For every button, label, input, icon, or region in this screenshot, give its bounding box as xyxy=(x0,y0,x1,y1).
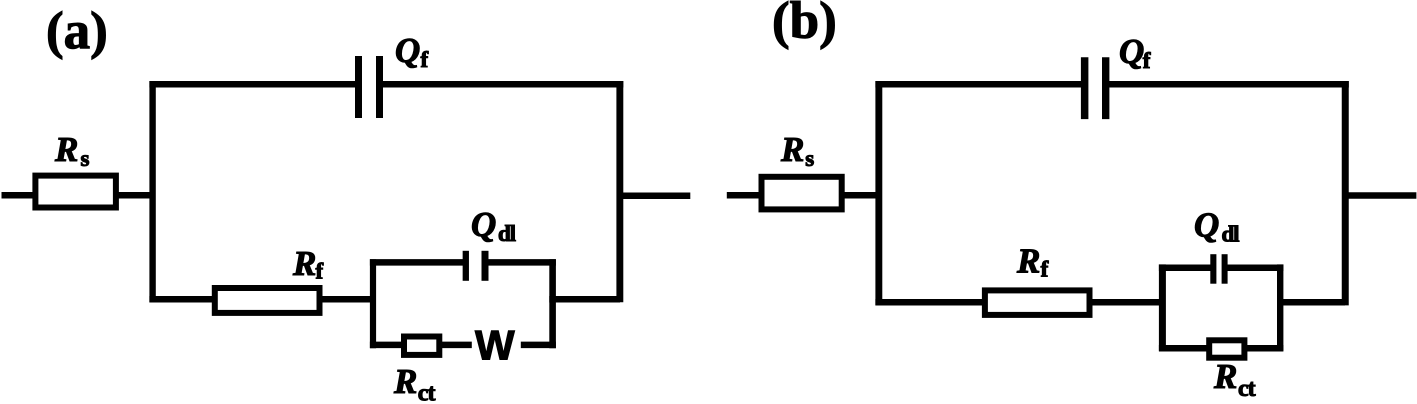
label Qf (a) xyxy=(395,31,429,72)
capacitor Qdl (b) left plate xyxy=(1210,254,1216,284)
label Rs (b) xyxy=(780,130,814,171)
wire Rct to parallel box right rail (b) xyxy=(1246,345,1283,352)
wire input lead (b) xyxy=(727,192,762,199)
label Qdl (b) xyxy=(1194,206,1239,247)
Warburg element W (a) xyxy=(475,322,515,369)
svg-text:ct: ct xyxy=(418,381,436,404)
wire output lead (a) xyxy=(623,192,690,199)
resistor Rct (b) xyxy=(1209,340,1244,357)
panel label (a) xyxy=(46,2,108,60)
label Qdl (a) xyxy=(471,205,516,246)
wire W to parallel box right rail (a) xyxy=(521,342,556,349)
wire top left segment (b) xyxy=(875,81,1082,88)
wire parallel box top right segment (b) xyxy=(1226,265,1283,272)
svg-text:s: s xyxy=(81,146,90,171)
svg-text:R: R xyxy=(780,130,804,169)
wire right rail (b) xyxy=(1342,81,1349,305)
svg-text:ct: ct xyxy=(1238,376,1256,402)
svg-text:R: R xyxy=(1016,242,1040,281)
svg-text:(b): (b) xyxy=(772,0,837,50)
wire Rs to left rail (a) xyxy=(116,192,153,199)
svg-text:dl: dl xyxy=(498,221,516,246)
label Rf (b) xyxy=(1016,242,1049,282)
wire left rail (a) xyxy=(149,81,155,302)
capacitor Qf (b) right plate xyxy=(1102,57,1109,119)
svg-text:W: W xyxy=(475,322,515,369)
label Rct (a) xyxy=(393,362,435,404)
resistor Rs (b) xyxy=(762,177,842,210)
capacitor Qdl (a) right plate xyxy=(482,251,489,281)
svg-text:Q: Q xyxy=(395,31,420,70)
label Qf (b) xyxy=(1119,32,1151,73)
label Rf (a) xyxy=(292,244,324,283)
wire parallel box top left segment (b) xyxy=(1159,265,1212,272)
capacitor Qdl (b) right plate xyxy=(1222,254,1228,284)
resistor Rf (a) xyxy=(215,288,320,313)
wire Rct to Warburg W (a) xyxy=(441,342,472,349)
wire Rs to left rail (b) xyxy=(842,192,879,199)
svg-text:Q: Q xyxy=(1194,206,1219,245)
capacitor Qdl (a) left plate xyxy=(463,251,469,281)
label Rct (b) xyxy=(1213,357,1256,402)
wire parallel box to right rail (a) xyxy=(549,296,620,303)
panel label (b) xyxy=(772,0,837,50)
wire top right segment (a) xyxy=(382,81,623,88)
wire parallel box right rail (a) xyxy=(549,259,556,348)
svg-text:f: f xyxy=(421,47,429,72)
wire parallel box right rail (b) xyxy=(1277,264,1283,350)
wire bottom branch left (a) xyxy=(149,296,213,303)
wire bottom branch left (b) xyxy=(875,299,985,306)
wire parallel box top left segment (a) xyxy=(370,259,464,266)
wire parallel box top right segment (a) xyxy=(487,259,556,266)
wire left rail (b) xyxy=(875,81,882,305)
wire output lead (b) xyxy=(1345,192,1416,199)
resistor Rf (b) xyxy=(985,290,1090,315)
wire parallel box to right rail (b) xyxy=(1277,299,1345,306)
svg-text:R: R xyxy=(292,244,316,283)
wire parallel box bottom left segment (a) xyxy=(370,342,404,349)
svg-text:dl: dl xyxy=(1222,222,1240,247)
svg-text:R: R xyxy=(54,130,78,169)
svg-text:f: f xyxy=(316,259,324,284)
label Rs (a) xyxy=(54,130,90,171)
capacitor Qf (b) left plate xyxy=(1081,57,1089,119)
svg-text:(a): (a) xyxy=(46,2,108,60)
wire parallel box bottom left segment (b) xyxy=(1159,345,1210,352)
svg-text:f: f xyxy=(1041,257,1049,282)
wire Rf to parallel box (a) xyxy=(322,296,374,303)
wire top right segment (b) xyxy=(1102,81,1349,88)
capacitor Qf (a) left plate xyxy=(355,56,362,118)
resistor Rct (a) xyxy=(404,337,439,355)
resistor Rs (a) xyxy=(35,176,116,208)
wire input lead (a) xyxy=(2,192,36,199)
svg-text:R: R xyxy=(393,362,417,401)
wire Rf to parallel box (b) xyxy=(1090,299,1163,306)
svg-text:s: s xyxy=(805,146,814,171)
svg-text:Q: Q xyxy=(471,205,496,244)
wire parallel box left rail (b) xyxy=(1159,264,1166,350)
wire parallel box left rail (a) xyxy=(370,259,376,348)
svg-text:f: f xyxy=(1143,48,1151,73)
wire top left segment (a) xyxy=(149,81,356,88)
svg-text:R: R xyxy=(1213,357,1237,396)
svg-text:Q: Q xyxy=(1119,32,1144,71)
wire right rail (a) xyxy=(616,81,623,302)
capacitor Qf (a) right plate xyxy=(376,56,383,118)
